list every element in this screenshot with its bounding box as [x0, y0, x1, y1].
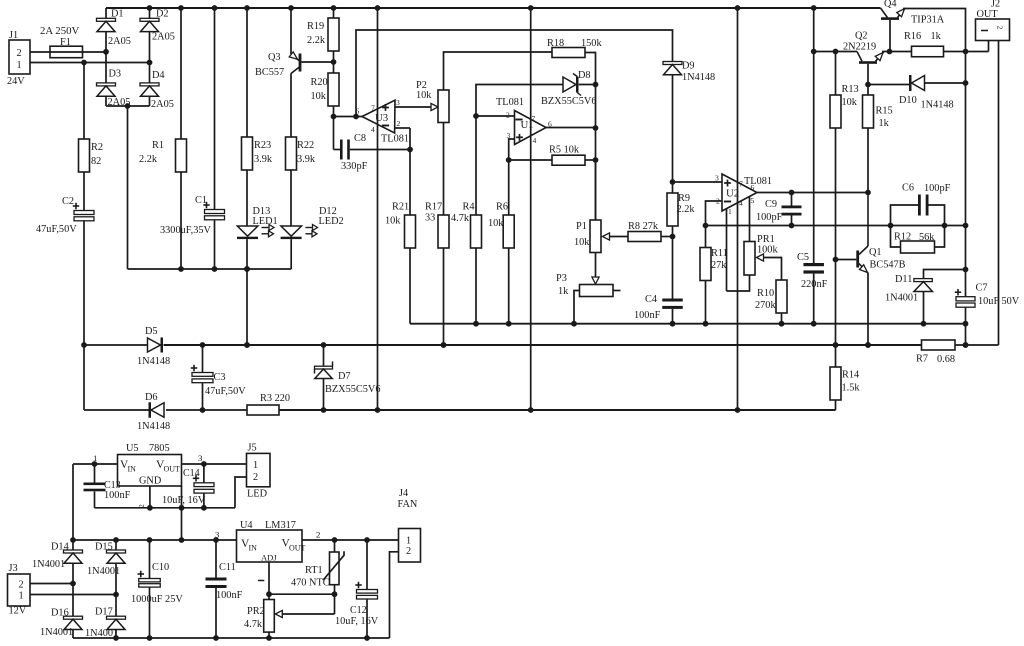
svg-text:10k: 10k	[574, 237, 590, 248]
svg-text:1000uF 25V: 1000uF 25V	[131, 594, 183, 605]
svg-text:10uF, 16V: 10uF, 16V	[335, 616, 379, 627]
svg-text:2A05: 2A05	[152, 32, 175, 43]
svg-text:IN: IN	[128, 465, 137, 474]
svg-text:1: 1	[728, 207, 732, 216]
svg-text:100nF: 100nF	[104, 490, 131, 501]
svg-text:R12: R12	[894, 232, 911, 243]
svg-text:LED2: LED2	[319, 216, 344, 227]
svg-text:2: 2	[506, 111, 510, 120]
svg-text:1k: 1k	[558, 286, 569, 297]
svg-text:R5 10k: R5 10k	[549, 145, 580, 156]
svg-text:R4: R4	[463, 202, 475, 213]
svg-text:2.2k: 2.2k	[139, 154, 158, 165]
svg-text:3: 3	[215, 530, 220, 540]
svg-text:3.9k: 3.9k	[254, 154, 273, 165]
svg-text:5: 5	[751, 196, 755, 205]
svg-text:ADJ: ADJ	[261, 553, 277, 563]
svg-text:6: 6	[548, 120, 552, 129]
svg-text:7805: 7805	[149, 443, 170, 454]
svg-text:BC557: BC557	[255, 67, 284, 78]
svg-text:2A 250V: 2A 250V	[40, 25, 79, 37]
svg-text:D9: D9	[682, 61, 695, 72]
svg-text:C3: C3	[214, 372, 226, 383]
svg-text:3: 3	[507, 131, 511, 140]
svg-text:47uF,50V: 47uF,50V	[36, 224, 77, 235]
svg-text:C6: C6	[902, 183, 914, 194]
svg-text:C5: C5	[797, 252, 809, 263]
svg-text:3300uF,35V: 3300uF,35V	[160, 225, 212, 236]
svg-text:7: 7	[739, 180, 743, 189]
svg-text:R1: R1	[152, 140, 164, 151]
svg-text:D4: D4	[152, 70, 165, 81]
svg-text:4: 4	[739, 199, 743, 208]
svg-text:1N4001: 1N4001	[87, 566, 120, 577]
svg-text:3: 3	[198, 453, 203, 463]
svg-text:U5: U5	[126, 443, 139, 454]
svg-text:C4: C4	[645, 294, 657, 305]
svg-text:R19: R19	[307, 21, 324, 32]
svg-text:FAN: FAN	[398, 499, 418, 510]
svg-text:100nF: 100nF	[216, 590, 243, 601]
svg-text:100nF: 100nF	[634, 310, 661, 321]
svg-text:2: 2	[716, 197, 720, 206]
svg-text:47uF,50V: 47uF,50V	[205, 386, 246, 397]
svg-text:1N4001: 1N4001	[885, 293, 918, 304]
svg-text:1k: 1k	[879, 118, 890, 129]
svg-text:7: 7	[532, 114, 536, 123]
svg-text:1N4148: 1N4148	[137, 356, 170, 367]
svg-text:150k: 150k	[581, 38, 602, 49]
svg-text:1N4001: 1N4001	[85, 628, 118, 639]
svg-text:2: 2	[253, 472, 258, 483]
svg-text:1: 1	[406, 536, 411, 547]
svg-text:D16: D16	[51, 607, 69, 618]
svg-text:D15: D15	[95, 542, 113, 553]
svg-text:C1: C1	[195, 195, 207, 206]
svg-text:2: 2	[137, 504, 146, 508]
svg-text:C9: C9	[765, 199, 777, 210]
svg-text:R8 27k: R8 27k	[628, 221, 659, 232]
svg-text:10k: 10k	[842, 97, 858, 108]
svg-text:D3: D3	[109, 68, 122, 79]
svg-text:220nF: 220nF	[801, 279, 828, 290]
svg-text:U2: U2	[726, 188, 739, 200]
svg-text:3.9k: 3.9k	[297, 154, 316, 165]
svg-text:82: 82	[91, 156, 101, 167]
svg-text:7: 7	[371, 104, 375, 113]
svg-text:C11: C11	[219, 562, 236, 573]
svg-text:C7: C7	[976, 283, 988, 294]
svg-text:R18: R18	[547, 38, 564, 49]
svg-text:2: 2	[397, 119, 401, 128]
svg-text:R11: R11	[711, 248, 728, 259]
svg-text:Q3: Q3	[268, 52, 281, 63]
svg-text:D14: D14	[51, 542, 69, 553]
svg-text:R17: R17	[425, 202, 442, 213]
svg-text:10k: 10k	[311, 91, 327, 102]
svg-text:BZX55C5V6: BZX55C5V6	[541, 96, 597, 107]
svg-text:C10: C10	[152, 562, 169, 573]
svg-text:LED1: LED1	[253, 216, 278, 227]
svg-text:TL081: TL081	[496, 97, 524, 108]
svg-text:1N4148: 1N4148	[137, 421, 170, 432]
svg-text:1N4148: 1N4148	[682, 72, 715, 83]
svg-text:R13: R13	[842, 84, 859, 95]
svg-text:C14: C14	[183, 468, 200, 479]
svg-text:OUT: OUT	[164, 465, 181, 474]
svg-text:2A05: 2A05	[108, 97, 131, 108]
svg-text:3: 3	[715, 174, 719, 183]
svg-text:6: 6	[356, 107, 360, 116]
svg-text:2A05: 2A05	[108, 36, 131, 47]
svg-text:C8: C8	[354, 133, 366, 144]
svg-text:RT1: RT1	[305, 565, 323, 576]
svg-text:R6: R6	[496, 202, 508, 213]
svg-text:2: 2	[406, 546, 411, 557]
svg-text:Q1: Q1	[869, 247, 882, 258]
svg-text:1.5k: 1.5k	[842, 383, 861, 394]
svg-text:1: 1	[253, 460, 258, 471]
svg-text:12V: 12V	[9, 606, 27, 617]
svg-text:PR1: PR1	[757, 234, 775, 245]
svg-text:D17: D17	[95, 607, 113, 618]
svg-text:U3: U3	[375, 112, 388, 124]
svg-text:D7: D7	[338, 371, 351, 382]
svg-text:R14: R14	[842, 370, 859, 381]
svg-text:4.7k: 4.7k	[451, 213, 470, 224]
svg-text:J4: J4	[399, 488, 408, 499]
svg-text:R15: R15	[876, 106, 893, 117]
svg-text:2: 2	[996, 26, 1005, 30]
svg-text:2: 2	[316, 530, 320, 540]
svg-text:10uF, 16V: 10uF, 16V	[162, 495, 206, 506]
svg-text:D6: D6	[145, 392, 158, 403]
svg-text:Q2: Q2	[855, 31, 868, 42]
svg-text:100k: 100k	[757, 245, 778, 256]
svg-text:D1: D1	[111, 9, 124, 20]
svg-text:TL081: TL081	[381, 134, 409, 145]
svg-text:R23: R23	[254, 140, 271, 151]
svg-text:1: 1	[17, 60, 22, 71]
svg-text:D11: D11	[895, 274, 912, 285]
svg-text:10uF: 10uF	[978, 296, 999, 307]
svg-text:2: 2	[19, 580, 24, 591]
svg-text:PR2: PR2	[247, 606, 265, 617]
svg-text:R22: R22	[297, 140, 314, 151]
svg-text:4: 4	[533, 136, 537, 145]
svg-text:C2: C2	[62, 196, 74, 207]
svg-text:P3: P3	[556, 273, 567, 284]
svg-text:100pF: 100pF	[924, 183, 951, 194]
svg-text:27k: 27k	[711, 260, 727, 271]
svg-text:OUT: OUT	[289, 544, 306, 553]
svg-text:6: 6	[751, 183, 755, 192]
svg-text:GND: GND	[139, 476, 162, 487]
svg-text:470 NTC: 470 NTC	[291, 578, 330, 589]
svg-text:3: 3	[396, 98, 400, 107]
svg-text:R3 220: R3 220	[260, 393, 290, 404]
svg-text:50V: 50V	[1002, 296, 1020, 307]
svg-text:R21: R21	[392, 202, 409, 213]
svg-text:R20: R20	[311, 77, 328, 88]
svg-text:LED: LED	[247, 489, 268, 500]
svg-text:R9: R9	[678, 193, 690, 204]
svg-text:2N2219: 2N2219	[843, 42, 876, 53]
svg-text:1N4148: 1N4148	[921, 100, 954, 111]
svg-text:TL081: TL081	[744, 176, 772, 187]
svg-text:BZX55C5V6: BZX55C5V6	[325, 384, 381, 395]
svg-text:LM317: LM317	[265, 520, 296, 531]
svg-text:J5: J5	[248, 443, 257, 454]
svg-text:Q4: Q4	[884, 0, 897, 10]
svg-text:1: 1	[19, 591, 24, 602]
svg-text:P1: P1	[576, 221, 587, 232]
svg-text:270k: 270k	[755, 300, 776, 311]
svg-text:R16: R16	[904, 31, 921, 42]
svg-text:2.2k: 2.2k	[677, 204, 696, 215]
svg-text:R7: R7	[916, 354, 928, 365]
svg-text:R10: R10	[757, 288, 774, 299]
svg-text:4.7k: 4.7k	[244, 619, 263, 630]
svg-text:4: 4	[371, 125, 375, 134]
svg-text:D5: D5	[145, 326, 158, 337]
svg-text:D2: D2	[156, 9, 169, 20]
svg-text:10k: 10k	[385, 216, 401, 227]
svg-text:1k: 1k	[931, 31, 942, 42]
svg-text:10k: 10k	[416, 90, 432, 101]
svg-text:56k: 56k	[919, 232, 935, 243]
svg-text:10k: 10k	[488, 218, 504, 229]
svg-text:1N4001: 1N4001	[40, 627, 73, 638]
svg-text:D10: D10	[899, 95, 917, 106]
svg-text:J3: J3	[9, 563, 18, 574]
svg-text:R2: R2	[91, 142, 103, 153]
svg-text:24V: 24V	[7, 76, 25, 87]
svg-text:330pF: 330pF	[341, 161, 368, 172]
svg-text:D8: D8	[578, 70, 591, 81]
svg-text:2.2k: 2.2k	[307, 35, 326, 46]
svg-text:U4: U4	[240, 520, 253, 531]
svg-text:33: 33	[425, 213, 435, 224]
svg-text:100pF: 100pF	[756, 212, 783, 223]
svg-text:2: 2	[17, 48, 22, 59]
svg-text:C12: C12	[350, 605, 367, 616]
svg-text:IN: IN	[249, 544, 258, 553]
svg-text:TIP31A: TIP31A	[911, 15, 945, 26]
svg-text:2A05: 2A05	[151, 99, 174, 110]
svg-text:0.68: 0.68	[937, 354, 955, 365]
svg-text:1N4001: 1N4001	[32, 559, 65, 570]
svg-text:OUT: OUT	[977, 9, 999, 20]
svg-text:BC547B: BC547B	[870, 260, 906, 271]
svg-text:F1: F1	[60, 37, 71, 48]
svg-text:1: 1	[93, 453, 97, 463]
svg-text:J1: J1	[9, 30, 18, 41]
